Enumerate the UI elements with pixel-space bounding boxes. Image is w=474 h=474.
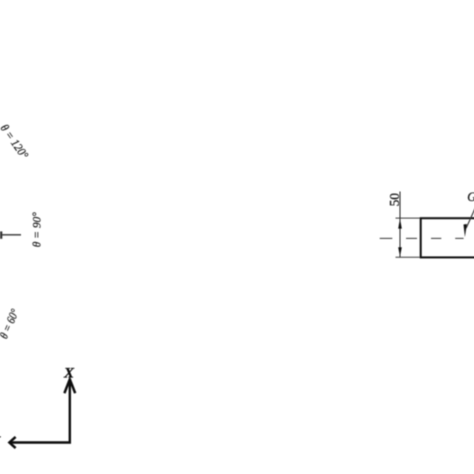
dimension arrow up xyxy=(398,219,402,229)
extension line bottom xyxy=(396,256,421,258)
axis Y line xyxy=(11,441,72,443)
extension line top xyxy=(396,217,421,219)
centerline dash 2 xyxy=(406,237,417,239)
svg-text:θ = 90°: θ = 90° xyxy=(30,212,44,247)
dimension line 50 xyxy=(399,192,401,258)
crack tip marker xyxy=(0,231,2,238)
leader arrowhead xyxy=(464,224,467,237)
centerline dash 4 xyxy=(455,237,463,239)
axis Y arrowhead xyxy=(9,437,15,448)
axis X arrowhead xyxy=(64,379,75,393)
wire crack line at 90deg xyxy=(2,234,22,236)
leader line to G xyxy=(466,208,474,229)
centerline dash 1 xyxy=(380,237,393,239)
centerline dash 3 xyxy=(431,237,441,239)
rectangle specimen xyxy=(421,218,474,257)
dimension arrow down xyxy=(398,247,402,256)
svg-text:G: G xyxy=(467,190,474,204)
axis X line xyxy=(69,381,71,444)
